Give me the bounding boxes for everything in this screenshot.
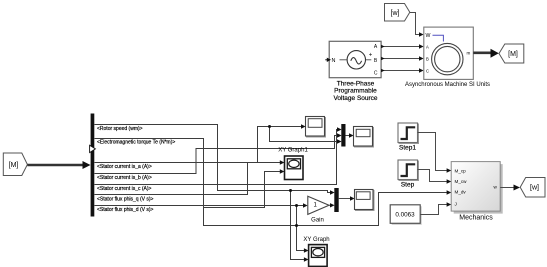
svg-text:m: m xyxy=(467,51,471,56)
svg-text:<Electromagnetic torque Te (N*: <Electromagnetic torque Te (N*m)> xyxy=(97,140,175,146)
svg-text:Step: Step xyxy=(401,182,415,189)
svg-text:<Stator current is_b (A)>: <Stator current is_b (A)> xyxy=(97,175,152,181)
svg-text:Three-Phase: Three-Phase xyxy=(337,80,375,87)
svg-text:C: C xyxy=(426,69,429,74)
svg-text:M_cp: M_cp xyxy=(455,169,467,174)
svg-text:<Stator current is_a (A)>: <Stator current is_a (A)> xyxy=(97,164,152,170)
svg-text:<Stator flux phis_q (V s)>: <Stator flux phis_q (V s)> xyxy=(97,197,153,203)
svg-text:XY Graph1: XY Graph1 xyxy=(278,148,308,154)
svg-text:<Stator flux phis_d (V s)>: <Stator flux phis_d (V s)> xyxy=(97,207,153,213)
svg-text:Programmable: Programmable xyxy=(334,88,377,95)
svg-text:M_cw: M_cw xyxy=(455,179,468,184)
svg-text:Gain: Gain xyxy=(311,218,324,224)
svg-text:N: N xyxy=(332,58,336,64)
svg-text:[M]: [M] xyxy=(508,51,518,58)
svg-text:C: C xyxy=(374,71,378,77)
svg-text:+: + xyxy=(369,53,373,59)
svg-text:B: B xyxy=(426,57,429,62)
svg-text:[M]: [M] xyxy=(9,162,19,169)
svg-text:<Rotor speed (wm)>: <Rotor speed (wm)> xyxy=(97,126,143,132)
svg-text:Step1: Step1 xyxy=(399,145,416,152)
svg-text:Voltage Source: Voltage Source xyxy=(333,95,377,102)
svg-text:<Stator current is_c (A)>: <Stator current is_c (A)> xyxy=(97,186,152,192)
svg-text:A: A xyxy=(426,45,429,50)
svg-text:M_dv: M_dv xyxy=(455,190,467,195)
svg-text:Asynchronous Machine SI Units: Asynchronous Machine SI Units xyxy=(405,82,490,88)
svg-text:J: J xyxy=(455,202,457,207)
svg-text:[w]: [w] xyxy=(391,10,400,17)
svg-text:[w]: [w] xyxy=(530,185,539,192)
svg-text:Mechanics: Mechanics xyxy=(459,215,493,222)
svg-text:W: W xyxy=(426,33,431,39)
svg-text:XY Graph: XY Graph xyxy=(303,237,329,243)
svg-text:0.0063: 0.0063 xyxy=(395,212,415,219)
